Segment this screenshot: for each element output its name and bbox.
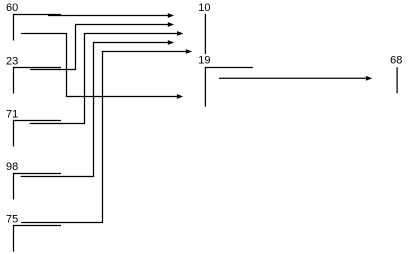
node 98 label bbox=[6, 161, 18, 173]
wire edge 19 to 68 bbox=[219, 77, 368, 79]
node 75 label bbox=[6, 214, 18, 226]
svg-text:10: 10 bbox=[198, 2, 210, 14]
wire edge 98 to 10 bbox=[21, 43, 170, 177]
node 10 label bbox=[198, 2, 210, 14]
node 71 label bbox=[6, 108, 18, 120]
node 60 stub bbox=[13, 14, 61, 16]
node 60 label bbox=[6, 2, 18, 14]
node 19 stub bbox=[205, 67, 253, 69]
svg-text:23: 23 bbox=[6, 55, 18, 67]
wire edge 60 to 10 (straight arrow) bbox=[48, 15, 170, 17]
wire edge 75 to 19 bbox=[21, 52, 188, 223]
node 19 tick bbox=[204, 67, 206, 107]
arrowhead edge 60 to 10 bbox=[168, 13, 174, 18]
svg-text:60: 60 bbox=[6, 2, 18, 14]
svg-text:19: 19 bbox=[198, 55, 210, 67]
node 23 stub bbox=[13, 67, 61, 69]
arrowhead edge 71 to 10 bbox=[177, 31, 183, 36]
svg-text:98: 98 bbox=[6, 161, 18, 173]
node 71 stub bbox=[13, 120, 61, 122]
node 23 label bbox=[6, 55, 18, 67]
wire edge 60 to 19 bbox=[21, 34, 179, 97]
node 68 label bbox=[390, 55, 402, 67]
node 23 tick bbox=[13, 67, 15, 94]
wire edge 71 to 10 bbox=[30, 34, 179, 124]
arrowhead edge 60 to 19 bbox=[177, 94, 183, 99]
node 71 tick bbox=[13, 120, 15, 147]
node 75 tick bbox=[13, 225, 15, 252]
node 75 stub bbox=[13, 225, 61, 227]
svg-text:71: 71 bbox=[6, 108, 18, 120]
node 60 tick bbox=[13, 14, 15, 41]
node 98 tick bbox=[13, 173, 15, 200]
node 10 tick bbox=[204, 14, 206, 54]
arrowhead edge 98 to 10 bbox=[168, 40, 174, 45]
node 98 stub bbox=[13, 173, 61, 175]
node 68 tick bbox=[396, 67, 398, 93]
arrowhead edge 75 to 19 bbox=[186, 49, 192, 54]
node 19 label bbox=[198, 55, 210, 67]
wire edge 23 to 10 bbox=[30, 25, 170, 70]
arrowhead edge 23 to 10 bbox=[168, 22, 174, 27]
svg-text:68: 68 bbox=[390, 55, 402, 67]
svg-text:75: 75 bbox=[6, 214, 18, 226]
arrowhead edge 19 to 68 bbox=[366, 76, 372, 81]
